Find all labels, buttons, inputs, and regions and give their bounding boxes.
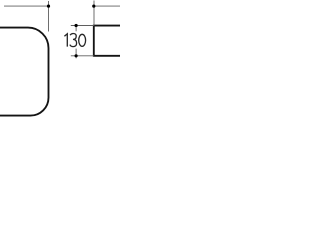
background	[0, 0, 120, 120]
digit 0	[79, 34, 86, 46]
left rounded-rect part outline	[0, 28, 49, 116]
dimension text 130 (drawn as paths)	[64, 34, 85, 47]
dot terminator top-left	[47, 5, 50, 8]
dot terminator 130-top	[75, 24, 78, 27]
dimension line top-right segment	[94, 5, 121, 7]
dimension line top-left segment	[4, 5, 49, 7]
vertical dimension line lower segment	[75, 49, 77, 59]
extension line top of 130	[71, 25, 94, 27]
digit 1	[64, 34, 67, 47]
dot terminator 130-bottom	[75, 54, 78, 57]
right rect part outline	[94, 26, 125, 56]
vertical dimension line upper segment	[75, 26, 77, 32]
extension line left (x=48.5)	[48, 1, 50, 32]
CAD dimensioned drawing, 120x120	[0, 0, 120, 120]
dot terminator top-right	[92, 5, 95, 8]
digit 3	[70, 34, 77, 47]
extension line right (x=94)	[93, 1, 95, 26]
extension line bottom of 130	[71, 55, 94, 57]
